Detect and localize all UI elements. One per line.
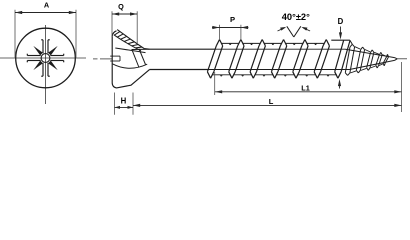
last bottom tooth and slat to flat crest land: [335, 41, 350, 79]
L/L1 shared extension line right at tip: [401, 62, 403, 112]
pozidriv recess slot arm down: [41, 63, 50, 76]
dimension P extension line right: [240, 25, 242, 39]
dimension Q extension line left: [111, 11, 113, 37]
dimension Q extension line right: [136, 11, 138, 43]
thread angle arrow right: [303, 28, 310, 31]
shank bottom line: [150, 69, 209, 71]
thread angle arrow left: [278, 28, 285, 31]
svg-text:H: H: [121, 97, 127, 106]
dimension A line: [15, 12, 76, 14]
dimension P extension line left: [219, 25, 221, 39]
pozidriv recess slot arm up: [41, 40, 50, 53]
head top conical surface outer arc: [117, 30, 149, 50]
head outline circle (front view): [16, 28, 76, 88]
head recess fan lower edge: [115, 48, 145, 53]
dimension A extension line left: [14, 10, 16, 58]
svg-text:D: D: [338, 17, 344, 26]
front view vertical centerline: [45, 25, 47, 104]
taper rails: [345, 40, 397, 75]
thread angle V left wall: [287, 26, 294, 37]
head outline (side view): [112, 31, 149, 88]
head/shank transition facet line 1: [132, 50, 139, 68]
dimension L1 line: [215, 91, 402, 93]
head recess band inner arc: [114, 35, 141, 51]
head internal bearing-cone elliptical edge: [112, 64, 147, 68]
dimension H extension line left: [114, 93, 116, 115]
tip centerline: [396, 58, 407, 60]
thread angle V right wall: [294, 26, 301, 37]
svg-text:40°±2°: 40°±2°: [282, 12, 310, 22]
pozidriv recess slot arm right: [50, 54, 63, 63]
shank top edge into head: [132, 48, 150, 50]
svg-text:L1: L1: [301, 83, 310, 92]
pozidriv recess tick spike 225deg: [33, 61, 43, 71]
dimension H line: [115, 106, 134, 108]
crest flat land before taper (D reference): [331, 39, 350, 41]
svg-text:P: P: [230, 15, 235, 24]
pozidriv recess center circle: [41, 54, 50, 63]
svg-text:A: A: [44, 1, 50, 10]
svg-text:Q: Q: [118, 2, 124, 11]
svg-text:L: L: [269, 97, 274, 106]
dimension L line: [133, 104, 402, 106]
recess slot seen on left face: [110, 55, 120, 57]
thread core top line: [216, 48, 346, 50]
head recess band hatch ticks: [114, 32, 142, 48]
front view horizontal centerline: [0, 57, 86, 59]
dimension A extension line right: [75, 10, 77, 58]
pozidriv recess tick spike 45deg: [48, 46, 58, 56]
pozidriv recess tick spike 135deg: [33, 46, 43, 56]
dimension Q line: [112, 13, 137, 15]
thread core bottom line: [208, 69, 350, 71]
pozidriv recess tick spike 315deg: [48, 61, 58, 71]
dimension D bottom arrow: [339, 84, 341, 89]
thread flight slats, teeth and back-helix rails: [207, 40, 337, 79]
shank top line: [150, 48, 216, 50]
L1 extension line left: [214, 72, 216, 95]
screw axis centerline left of head: [93, 58, 98, 60]
dimension D top arrow: [340, 27, 342, 35]
dimension H extension line right: [132, 93, 134, 115]
pozidriv recess slot arm left: [27, 54, 40, 63]
head/shank transition facet line 2: [139, 49, 146, 65]
dimension P line with outside arrows: [212, 27, 220, 29]
